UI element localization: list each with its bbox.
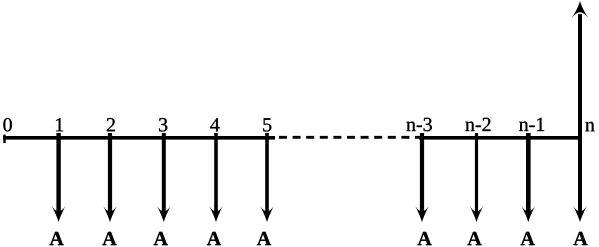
down arrow at period 1 [52, 133, 66, 222]
value label A at period 5 [257, 232, 271, 245]
down arrow at period n-2 [470, 133, 484, 222]
node label n [585, 122, 594, 131]
down arrow at period n-1 [521, 133, 535, 222]
down arrow at period n-3 [415, 133, 429, 222]
node label 2 [107, 118, 115, 131]
node label 3 [159, 118, 167, 131]
value label A at period 1 [50, 232, 64, 245]
down arrow at period 5 [260, 133, 274, 222]
value label A at period 2 [102, 232, 116, 245]
node label 1 [56, 118, 63, 131]
node label 0 [3, 118, 11, 132]
node label n-3 [406, 118, 431, 131]
down arrow at period 2 [103, 133, 117, 222]
wire: timeline dashed segment 5 to n-3 [279, 136, 419, 139]
value label A at period 3 [154, 232, 168, 245]
down arrow at period 3 [157, 133, 171, 222]
value label A at period n-1 [521, 232, 535, 245]
double arrow at period n: up future-value arrow and down A arrow [572, 1, 589, 222]
tick at node 0 [3, 135, 5, 143]
wire: timeline solid segment n-3 to n [419, 136, 581, 140]
value label A at period n-2 [467, 232, 481, 245]
value label A at period n [573, 232, 587, 245]
value label A at period 4 [207, 232, 221, 245]
down arrow at period 4 [209, 133, 223, 222]
node label n-2 [465, 118, 490, 131]
wire: timeline solid segment 0 to 5 [3, 136, 275, 140]
node label 5 [263, 118, 271, 131]
node label 4 [210, 118, 219, 131]
node label n-1 [519, 118, 544, 131]
value label A at period n-3 [418, 232, 432, 245]
